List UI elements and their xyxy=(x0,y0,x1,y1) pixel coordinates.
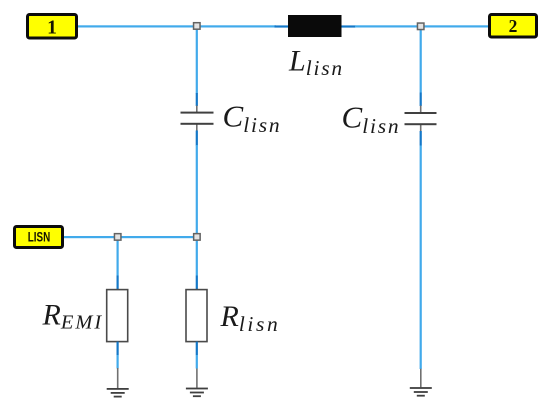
svg-text:Clisn: Clisn xyxy=(223,99,282,138)
port 2 (yellow terminal block) xyxy=(490,15,537,38)
junction A (node on top bus, left) xyxy=(194,23,201,30)
svg-text:REMI: REMI xyxy=(42,298,104,333)
ground G1 symbol xyxy=(107,388,129,398)
ground G3 symbol xyxy=(410,387,432,396)
wire: LISN port to junction C xyxy=(64,236,115,238)
wire: capacitor C2 top pin lead (dark blue) xyxy=(420,93,422,107)
wire: top bus from port 1 to junction A xyxy=(78,25,194,27)
wire: vertical from junction B down to capacitor C2 xyxy=(420,29,422,93)
wire: vertical from capacitor C2 down to ground G3 xyxy=(420,146,422,370)
ground G3 lead xyxy=(420,369,422,388)
wire: capacitor C1 bottom gray lead xyxy=(196,124,198,131)
junction D (node on LISN row, right) xyxy=(194,234,201,241)
svg-text:Rlisn: Rlisn xyxy=(220,300,281,336)
capacitor C1 (C_lisn left) plates xyxy=(181,112,214,125)
junction B (node on top bus, right) xyxy=(417,23,424,30)
ground G2 lead xyxy=(196,369,198,388)
wire: resistor R1 top pin lead (dark blue) xyxy=(117,276,119,291)
wire: inductor L1 right pin lead xyxy=(342,25,356,27)
wire: junction D down to resistor R_lisn xyxy=(196,240,198,276)
wire: capacitor C2 top gray lead xyxy=(420,106,422,114)
wire: top bus junction B to port 2 xyxy=(424,25,488,27)
wire: capacitor C1 bottom pin lead (dark blue) xyxy=(196,131,198,146)
junction C (node on LISN row, left) xyxy=(114,234,121,241)
ground G2 symbol xyxy=(186,388,208,397)
svg-text:LISN: LISN xyxy=(28,228,51,244)
wire: resistor R1 bottom pin lead (dark blue) xyxy=(117,342,119,356)
wire: resistor R2 top pin lead (dark blue) xyxy=(196,276,198,291)
wire: top bus inductor right lead to junction B xyxy=(355,25,418,27)
wire: vertical from junction A down to capacitor C1 xyxy=(196,29,198,94)
wire: resistor R1 to ground G1 xyxy=(117,355,119,369)
svg-text:Clisn: Clisn xyxy=(342,100,401,139)
resistor R2 (R_lisn) body xyxy=(186,290,207,342)
wire: resistor R2 to ground G2 xyxy=(196,355,198,369)
svg-text:1: 1 xyxy=(47,18,57,39)
svg-text:2: 2 xyxy=(509,16,518,36)
wire: capacitor C2 bottom pin lead (dark blue) xyxy=(420,131,422,146)
port 1 (yellow terminal block) xyxy=(28,15,77,39)
wire: junction C down to resistor R_EMI xyxy=(117,240,119,276)
wire: junction C to junction D xyxy=(121,236,194,238)
wire: capacitor C1 top gray lead xyxy=(196,106,198,113)
wire: inductor L1 left pin lead xyxy=(275,25,289,27)
wire: resistor R2 bottom pin lead (dark blue) xyxy=(196,342,198,356)
port LISN (yellow terminal block) xyxy=(15,227,63,248)
capacitor C2 (C_lisn right) plates xyxy=(405,112,437,125)
wire: vertical from capacitor C1 down to junction D xyxy=(196,145,198,234)
ground G1 lead xyxy=(117,368,119,388)
inductor L1 (L_lisn) body xyxy=(288,15,342,37)
resistor R1 (R_EMI) body xyxy=(107,290,128,342)
svg-text:Llisn: Llisn xyxy=(288,44,344,80)
wire: capacitor C1 top pin lead (dark blue) xyxy=(196,93,198,106)
wire: top bus junction A to inductor left lead xyxy=(200,25,276,27)
wire: capacitor C2 bottom gray lead xyxy=(420,125,422,132)
